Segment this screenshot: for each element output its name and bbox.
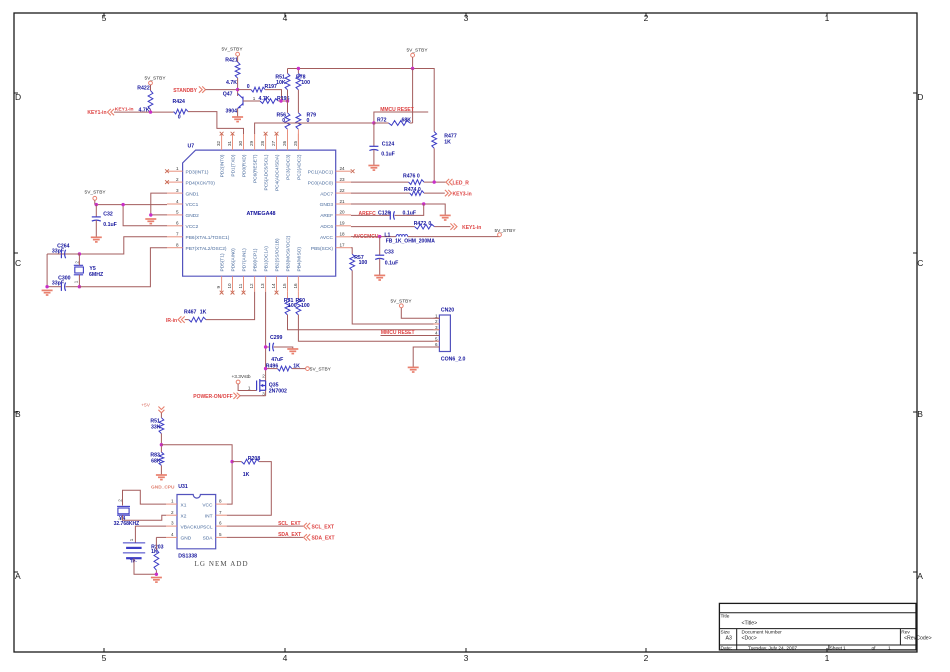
- svg-text:1: 1: [888, 645, 891, 651]
- svg-text:0.1uF: 0.1uF: [385, 260, 399, 266]
- svg-text:20: 20: [340, 210, 346, 215]
- ground CN20: [408, 367, 419, 372]
- wire R477 to LED_R node: [433, 148, 435, 182]
- U7 bottom pin 14 PB2(SS/OC1B): [271, 238, 281, 292]
- ground GND_CPU: [151, 475, 175, 491]
- wire 5V_STBY down to R72: [412, 69, 414, 124]
- U7 top pin 31 PD1(TXD): [227, 134, 237, 177]
- power +5V arrow: [141, 403, 164, 418]
- U7 right pin 24 PC1(ADC1): [308, 166, 351, 175]
- wire X2 to crystal Y4 bottom: [123, 515, 167, 520]
- ground C32: [91, 237, 102, 242]
- wire R51b to junction: [160, 434, 162, 453]
- ground GND3: [440, 215, 451, 220]
- svg-text:1: 1: [825, 653, 830, 663]
- wire MMCU RESET to CN20 pin 4: [381, 334, 440, 336]
- svg-text:AREF: AREF: [320, 213, 333, 219]
- capacitor C299 47uF: [266, 335, 293, 363]
- power +3.3Vstb: [231, 374, 250, 384]
- wire C264 to ground leg: [46, 254, 48, 287]
- resistor R60 100: [296, 292, 310, 315]
- svg-text:PD7(AIN1): PD7(AIN1): [242, 248, 248, 272]
- op-amp U31 DS1338 body: [166, 484, 227, 559]
- svg-text:LED_R: LED_R: [453, 180, 470, 186]
- svg-text:25: 25: [293, 140, 298, 146]
- svg-text:5V_STBY: 5V_STBY: [221, 47, 243, 53]
- svg-text:PD1(TXD): PD1(TXD): [231, 154, 237, 177]
- capacitor C32 0.1uF: [92, 205, 117, 238]
- wire R467 to U7 pin 12: [206, 292, 255, 320]
- node junction GND3/C126: [422, 202, 425, 205]
- svg-text:KEY1-in: KEY1-in: [462, 225, 481, 231]
- svg-text:+5V: +5V: [141, 403, 150, 409]
- wire R424 to U7 pin 30: [188, 112, 244, 134]
- svg-text:PC5(ADC5/SCL): PC5(ADC5/SCL): [264, 154, 270, 190]
- wire +3.3Vstb to Q35 gate: [238, 384, 257, 391]
- power 5V_STBY above R421: [221, 47, 243, 63]
- svg-text:4: 4: [283, 13, 288, 23]
- title block: [719, 603, 916, 650]
- svg-text:C126: C126: [378, 211, 391, 217]
- capacitor C33 0.1uF: [375, 237, 398, 276]
- svg-text:PD6(AIN0): PD6(AIN0): [231, 248, 237, 272]
- resistor R422 4.7K: [137, 86, 153, 114]
- svg-text:IR-in: IR-in: [166, 318, 177, 324]
- resistor R83 68K: [150, 452, 163, 465]
- svg-text:13: 13: [260, 283, 265, 289]
- svg-text:3904: 3904: [225, 109, 237, 115]
- svg-text:0: 0: [178, 115, 181, 121]
- svg-text:Title: Title: [721, 614, 730, 620]
- node junction C300/Y5: [78, 285, 81, 288]
- wire XTAL1 from U7 pin 7: [60, 237, 167, 254]
- svg-text:68K: 68K: [402, 117, 412, 123]
- resistor R477 1K: [432, 132, 457, 149]
- wire R197 to R195 node: [265, 90, 281, 101]
- transistor Q47 3904: [223, 92, 243, 115]
- svg-text:5: 5: [219, 532, 222, 537]
- svg-text:7: 7: [219, 510, 222, 515]
- svg-text:100: 100: [288, 303, 297, 309]
- svg-text:2: 2: [176, 177, 179, 182]
- U7 bottom pin 16 PB4(MISO): [293, 247, 303, 292]
- svg-text:R421: R421: [225, 58, 238, 64]
- svg-text:23: 23: [340, 177, 346, 182]
- wire AVCC row: [351, 236, 396, 238]
- node junction R476/R477: [433, 180, 436, 183]
- svg-text:R424: R424: [172, 99, 185, 105]
- U7 left pin 8 PB7(XTAL2/OSC2): [167, 243, 227, 252]
- svg-text:C124: C124: [382, 141, 395, 147]
- svg-text:1: 1: [253, 96, 256, 101]
- svg-text:SCL_EXT: SCL_EXT: [312, 524, 335, 530]
- svg-text:1K: 1K: [243, 472, 250, 478]
- svg-text:1: 1: [825, 13, 830, 23]
- wire STANDBY to node: [206, 89, 238, 91]
- svg-text:GND: GND: [181, 536, 192, 542]
- svg-text:SDA: SDA: [203, 536, 214, 542]
- ground crystal: [42, 290, 53, 295]
- svg-text:GND3: GND3: [320, 202, 334, 208]
- svg-text:PB6(XTAL1/TOSC1): PB6(XTAL1/TOSC1): [186, 235, 230, 241]
- svg-text:16: 16: [293, 283, 298, 289]
- wire R83 to ground: [160, 465, 162, 475]
- svg-text:PC4(ADC4/SDA): PC4(ADC4/SDA): [275, 154, 281, 191]
- svg-text:PB1(OC1A): PB1(OC1A): [264, 246, 270, 272]
- U7 right pin 20 AREF: [320, 210, 351, 219]
- wire VCC1 row: [95, 204, 167, 206]
- svg-text:1K: 1K: [444, 139, 451, 145]
- svg-text:PD0(RXD): PD0(RXD): [242, 154, 248, 177]
- svg-text:PB7(XTAL2/OSC2): PB7(XTAL2/OSC2): [186, 246, 227, 252]
- U7 left pin 7 PB6(XTAL1/TOSC1): [167, 232, 230, 241]
- svg-text:22: 22: [340, 188, 346, 193]
- svg-text:PC2(ADC2): PC2(ADC2): [296, 154, 302, 180]
- capacitor C264 33pF: [47, 243, 79, 258]
- svg-text:68K: 68K: [151, 458, 161, 464]
- svg-text:POWER-ON/OFF: POWER-ON/OFF: [193, 394, 232, 400]
- svg-text:12: 12: [249, 283, 254, 289]
- svg-text:4: 4: [435, 331, 438, 336]
- svg-text:A: A: [15, 571, 21, 581]
- svg-text:D: D: [15, 92, 21, 102]
- svg-text:30: 30: [238, 140, 243, 146]
- U7 top pin 28 PC5(ADC5/SCL): [260, 134, 270, 191]
- port SDA_EXT: [304, 534, 335, 541]
- svg-text:ADC6: ADC6: [320, 224, 333, 230]
- resistor R472 0: [351, 221, 451, 229]
- svg-text:KEY3-in: KEY3-in: [453, 191, 472, 197]
- U7 bottom pin 13 PB1(OC1A): [260, 246, 270, 292]
- power 5V_STBY CN20 pin1: [390, 299, 439, 319]
- resistor R71 100: [284, 292, 297, 315]
- svg-text:1: 1: [843, 645, 846, 651]
- svg-text:5: 5: [435, 336, 438, 341]
- svg-text:100: 100: [359, 260, 368, 266]
- U7 left pin 2 PD4(XCK/T0): [167, 177, 215, 186]
- svg-text:6MHZ: 6MHZ: [89, 272, 104, 278]
- svg-text:<Title>: <Title>: [742, 621, 758, 627]
- wire R78 leads: [297, 69, 299, 74]
- svg-text:3: 3: [464, 653, 469, 663]
- svg-text:0.1uF: 0.1uF: [381, 152, 395, 158]
- svg-text:VCC: VCC: [202, 502, 213, 508]
- svg-text:C33: C33: [384, 250, 394, 256]
- svg-text:VCC1: VCC1: [186, 202, 199, 208]
- crystal Y4 32.768KHZ: [114, 499, 140, 527]
- svg-text:8: 8: [176, 243, 179, 248]
- svg-text:2: 2: [644, 13, 649, 23]
- wire SDA to port: [227, 536, 303, 538]
- node junction VCC rows: [121, 203, 124, 206]
- U7 top pin 32 PD2(INT0): [216, 134, 226, 178]
- svg-text:SCL: SCL: [203, 524, 213, 530]
- resistor R51b 33K: [150, 418, 163, 434]
- svg-text:27: 27: [271, 140, 276, 146]
- svg-text:B: B: [917, 409, 923, 419]
- resistor R467 1K: [184, 310, 207, 323]
- wire XTAL2 to U7 pin 8: [79, 248, 167, 287]
- svg-text:PB4(MISO): PB4(MISO): [296, 247, 302, 272]
- wire R56 to U7 pin 26: [287, 101, 289, 113]
- svg-text:2: 2: [435, 319, 438, 324]
- svg-text:1: 1: [435, 313, 438, 318]
- U7 bottom pin 10 PD6(AIN0): [227, 248, 237, 292]
- resistor R496 1K: [266, 364, 306, 371]
- node junction XTAL1/Y5: [78, 252, 81, 255]
- svg-text:19: 19: [340, 221, 346, 226]
- svg-text:2: 2: [74, 261, 79, 264]
- net label MMCU RESET upper: [374, 107, 428, 123]
- svg-text:PD5(T1): PD5(T1): [220, 253, 226, 272]
- U7 top pin 30 PD0(RXD): [238, 134, 248, 177]
- resistor R78 100: [296, 73, 310, 89]
- resistor R474 0: [351, 187, 445, 196]
- svg-text:AVCC: AVCC: [320, 235, 334, 241]
- svg-text:Q47: Q47: [223, 92, 233, 98]
- svg-text:1: 1: [171, 499, 174, 504]
- svg-text:5V_STBY: 5V_STBY: [310, 367, 332, 373]
- capacitor C126 0.1uF: [351, 204, 424, 220]
- wire R60 to CN20 pin 5: [298, 315, 439, 341]
- svg-text:2: 2: [171, 510, 174, 515]
- svg-text:VCC2: VCC2: [186, 224, 199, 230]
- port LED_R: [446, 179, 469, 186]
- svg-text:29: 29: [249, 140, 254, 146]
- wire R51 leads: [287, 69, 289, 74]
- node junction R422/KEY1-in: [149, 110, 152, 113]
- ground C33: [374, 275, 385, 280]
- svg-text:PB2(SS/OC1B): PB2(SS/OC1B): [275, 238, 281, 271]
- resistor R476 0: [351, 174, 446, 185]
- svg-text:2N7002: 2N7002: [269, 388, 287, 394]
- wire Q47 emitter to ground: [237, 109, 239, 118]
- svg-text:STANDBY: STANDBY: [173, 88, 197, 94]
- svg-text:X2: X2: [181, 513, 187, 519]
- U7 left pin 4 VCC1: [167, 199, 199, 208]
- svg-text:GND2: GND2: [186, 213, 200, 219]
- wire R422 to KEY1-in net: [150, 110, 152, 113]
- svg-text:VBACKUP: VBACKUP: [181, 524, 204, 530]
- svg-text:26: 26: [282, 140, 287, 146]
- wire SCL to port: [227, 525, 303, 527]
- svg-text:FB_1K_OHM_200MA: FB_1K_OHM_200MA: [386, 239, 436, 245]
- svg-text:<RevCode>: <RevCode>: [904, 636, 932, 642]
- wire U7 pin 13 down: [265, 292, 267, 396]
- svg-text:+3.3Vstb: +3.3Vstb: [231, 374, 250, 380]
- svg-text:0.1uF: 0.1uF: [103, 222, 117, 228]
- U7 left pin 3 GND1: [167, 188, 199, 197]
- U7 top pin 25 PC2(ADC2): [293, 134, 303, 180]
- wire R79 to U7 pin 25: [297, 129, 299, 150]
- svg-text:X1: X1: [181, 502, 187, 508]
- svg-text:17: 17: [340, 243, 346, 248]
- wire GND3 row: [351, 204, 445, 215]
- node junction C32: [95, 203, 98, 206]
- connector CN20 CON6_2.0: [433, 307, 465, 362]
- power 5V_STBY above C32: [85, 190, 107, 205]
- svg-text:4: 4: [283, 653, 288, 663]
- U7 top pin 29 PC6(RESET): [249, 134, 259, 183]
- ground RTC: [151, 578, 162, 583]
- svg-text:C32: C32: [103, 212, 113, 218]
- op-amp U7 ATMEGA48 body: [183, 150, 336, 276]
- resistor R72 68K: [377, 117, 411, 125]
- power 5V_STBY right of L1: [494, 228, 516, 237]
- svg-text:100: 100: [301, 80, 310, 86]
- svg-text:R208: R208: [248, 456, 261, 462]
- wire DELON net to VCC/R208: [161, 445, 232, 504]
- svg-text:6: 6: [435, 342, 438, 347]
- node junction R496: [264, 367, 267, 370]
- svg-text:1: 1: [248, 386, 251, 391]
- svg-text:L1: L1: [384, 232, 390, 238]
- no-connect marks U7: [165, 132, 354, 295]
- wire KEY1-in to R424: [114, 111, 174, 113]
- U7 right pin 19 ADC6: [320, 221, 351, 230]
- power 5V_STBY top right: [406, 48, 428, 69]
- wire R421 to Q47 collector node: [237, 78, 239, 96]
- node junction STANDBY/R421: [236, 88, 239, 91]
- resistor R56 0: [276, 113, 289, 130]
- node junction R195 right: [279, 99, 282, 102]
- U7 right pin 23 PC0(ADC0): [308, 177, 351, 186]
- svg-text:C299: C299: [270, 335, 283, 341]
- svg-text:B: B: [15, 409, 21, 419]
- U7 right pin 17 PB5(SCK): [311, 243, 351, 252]
- resistor R197 0: [247, 84, 277, 92]
- svg-text:C: C: [15, 258, 21, 268]
- wire CN20 pin 6 to ground: [413, 347, 439, 367]
- svg-text:1K: 1K: [200, 310, 207, 316]
- wire MMCU RESET from U7 pin 29: [255, 123, 374, 134]
- svg-text:PD4(XCK/T0): PD4(XCK/T0): [186, 180, 216, 186]
- node junction MMCU RESET/R72/C124: [372, 121, 375, 124]
- crystal Y5 6MHZ: [73, 254, 104, 287]
- wire GND1/GND2 tie: [151, 193, 167, 215]
- port STANDBY: [173, 86, 205, 94]
- U7 right pin 18 AVCC: [320, 232, 351, 241]
- svg-text:7: 7: [176, 232, 179, 237]
- svg-text:4: 4: [171, 532, 174, 537]
- resistor R424 0: [172, 99, 188, 121]
- svg-text:of: of: [872, 645, 877, 651]
- U7 top pin 26 PC3(ADC3): [282, 134, 292, 180]
- power 5V_STBY right of R496: [306, 367, 332, 373]
- U7 top pin 27 PC4(ADC4/SDA): [271, 134, 281, 191]
- svg-text:32: 32: [216, 140, 221, 146]
- port KEY1-in left: [87, 109, 114, 116]
- svg-text:CON6_2.0: CON6_2.0: [441, 356, 466, 362]
- wire battery minus to junction: [134, 558, 156, 574]
- svg-text:11: 11: [238, 283, 243, 288]
- node junction battery/R203/ground: [155, 573, 158, 576]
- battery BT: [123, 538, 145, 563]
- resistor R195 4.7K: [253, 96, 290, 103]
- svg-text:10: 10: [227, 283, 232, 289]
- power 5V_STBY above R422: [144, 76, 166, 91]
- svg-text:GND1: GND1: [186, 191, 200, 197]
- node junction R208 tap: [230, 460, 233, 463]
- wire L1 to 5V_STBY: [408, 235, 500, 238]
- svg-text:5: 5: [102, 653, 107, 663]
- svg-text:A: A: [917, 571, 923, 581]
- node junction rail/R78: [297, 67, 300, 70]
- resistor R79 0: [296, 113, 316, 130]
- node junction C264/C300 ground: [45, 285, 48, 288]
- svg-text:PC0(ADC0): PC0(ADC0): [308, 180, 334, 186]
- ground Q47: [232, 117, 243, 122]
- svg-text:24: 24: [340, 166, 346, 171]
- transistor Q35 2N7002: [257, 374, 287, 397]
- svg-text:PC3(ADC3): PC3(ADC3): [286, 154, 292, 180]
- U7 right pin 21 GND3: [320, 199, 351, 208]
- svg-text:14: 14: [271, 283, 276, 289]
- capacitor C300 33pF: [47, 276, 79, 291]
- wire R57 to CN20 pin 2: [352, 271, 439, 325]
- svg-text:SDA_EXT: SDA_EXT: [312, 536, 335, 542]
- svg-text:Tuesday, July 24, 2007: Tuesday, July 24, 2007: [748, 645, 797, 651]
- node junction GND tie: [149, 213, 152, 216]
- svg-text:21: 21: [340, 199, 346, 204]
- svg-text:4.7K: 4.7K: [226, 80, 237, 86]
- svg-text:R467: R467: [184, 310, 197, 316]
- ground GND1/GND2: [145, 219, 156, 224]
- svg-text:U31: U31: [178, 484, 188, 490]
- svg-text:PD2(INT0): PD2(INT0): [220, 154, 226, 177]
- svg-text:3: 3: [171, 521, 174, 526]
- resistor R203 1K: [151, 537, 166, 574]
- svg-text:28: 28: [260, 140, 265, 146]
- svg-text:15: 15: [282, 283, 287, 289]
- svg-text:KEY1-in: KEY1-in: [87, 110, 106, 116]
- svg-text:R72: R72: [377, 117, 387, 123]
- svg-text:9: 9: [216, 286, 221, 289]
- U7 left pin 6 VCC2: [167, 221, 199, 230]
- U7 bottom pin 15 PB3(MOSI/OC2): [282, 235, 292, 291]
- svg-text:2: 2: [262, 374, 265, 379]
- svg-text:CN20: CN20: [441, 307, 454, 313]
- svg-text:ATMEGA48: ATMEGA48: [247, 211, 276, 217]
- svg-text:PB5(SCK): PB5(SCK): [311, 246, 334, 252]
- svg-text:D: D: [917, 92, 923, 102]
- svg-text:4: 4: [176, 199, 179, 204]
- node junction AVCC/C33: [378, 235, 381, 238]
- svg-text:AREFC: AREFC: [359, 211, 377, 217]
- svg-text:2: 2: [644, 653, 649, 663]
- node junction R195/R51: [286, 99, 289, 102]
- svg-text:LG NEM ADD: LG NEM ADD: [195, 560, 249, 568]
- svg-text:33K: 33K: [151, 425, 161, 431]
- svg-text:1: 1: [176, 166, 179, 171]
- svg-text:1: 1: [73, 280, 78, 283]
- svg-text:ADC7: ADC7: [320, 191, 333, 197]
- svg-text:PD3(INT1): PD3(INT1): [186, 169, 209, 175]
- wire R208 to INT pin 7: [227, 462, 272, 516]
- svg-text:GND_CPU: GND_CPU: [151, 485, 175, 491]
- svg-text:DS1338: DS1338: [178, 554, 197, 560]
- capacitor C124 0.1uF: [369, 123, 394, 166]
- port KEY3-in: [445, 190, 472, 197]
- wire R71 to CN20 pin 3: [288, 315, 440, 330]
- svg-text:6: 6: [176, 221, 179, 226]
- wire VCC2 jog: [123, 205, 167, 226]
- svg-text:U7: U7: [188, 144, 195, 150]
- port SCL_EXT: [304, 523, 334, 530]
- svg-text:PC1(ADC1): PC1(ADC1): [308, 169, 334, 175]
- svg-text:33pF: 33pF: [52, 281, 64, 287]
- svg-text:R422: R422: [137, 86, 150, 92]
